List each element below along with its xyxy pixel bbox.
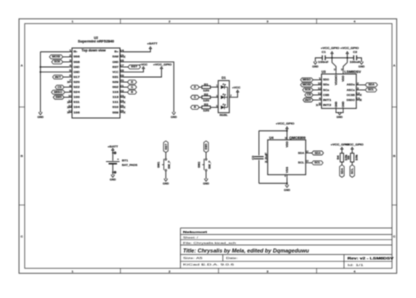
svg-text:011: 011 <box>74 100 80 104</box>
wire <box>313 94 318 96</box>
power +VCC at U2 <box>142 67 144 69</box>
svg-text:BAT_PADS: BAT_PADS <box>122 163 137 167</box>
svg-text:C2: C2 <box>353 50 357 54</box>
ground below battery <box>111 175 114 177</box>
global label SCL at U3 <box>359 89 365 91</box>
capacitor C3 <box>254 156 264 158</box>
global label MOSI <box>49 55 62 59</box>
wire <box>313 84 318 86</box>
power +BATT at U2 <box>149 47 151 49</box>
ground below SW2 <box>204 179 207 181</box>
ic U2 Supermini nRF52840 body <box>72 48 120 118</box>
svg-text:SCK: SCK <box>54 60 61 64</box>
battery BT1 plates <box>106 161 120 163</box>
svg-text:+VCC_GPIO: +VCC_GPIO <box>345 142 363 146</box>
svg-text:MISO: MISO <box>54 90 63 94</box>
wire G to R2 <box>199 96 202 98</box>
U3 pin 4 INT1 <box>318 99 321 101</box>
global label RST above SW1 <box>164 141 169 153</box>
svg-text:1: 1 <box>72 20 74 24</box>
U3 pin 1 SDO <box>318 79 321 81</box>
junction above U4 <box>286 130 288 132</box>
svg-text:Nekumori: Nekumori <box>183 230 207 234</box>
global label SDA at U3 <box>359 84 365 86</box>
svg-text:SDA: SDA <box>340 167 344 174</box>
svg-text:GND: GND <box>334 101 338 107</box>
wire battery to ground <box>112 164 114 175</box>
svg-text:Title: Chrysalis by Mela, edit: Title: Chrysalis by Mela, edited by Dqma… <box>183 248 310 254</box>
svg-text:SCL: SCL <box>298 161 304 165</box>
wire rail to VDDIO pin <box>332 58 336 71</box>
global label R at resistor R1 <box>191 85 200 89</box>
svg-text:ASDx: ASDx <box>347 83 355 87</box>
svg-text:GND: GND <box>110 178 117 182</box>
svg-text:C3: C3 <box>251 155 255 160</box>
svg-text:MOSI: MOSI <box>303 83 311 87</box>
global label CS <box>55 85 64 89</box>
global label G <box>123 86 128 88</box>
battery BT1 top pad <box>114 152 116 154</box>
svg-text:INT: INT <box>305 98 311 102</box>
svg-text:106: 106 <box>74 110 80 114</box>
no-connect pin 111 <box>123 101 125 103</box>
svg-text:SCL: SCL <box>350 168 354 174</box>
svg-text:SCK: SCK <box>305 88 312 92</box>
wire R2 to D1 <box>210 96 218 98</box>
global label MISO at U3 <box>301 78 314 82</box>
svg-text:3: 3 <box>267 20 269 24</box>
wire +VCC_GPIO to U4 VDD <box>286 129 288 140</box>
svg-text:120: 120 <box>203 109 210 113</box>
U3 pin VDD <box>342 71 344 74</box>
svg-text:RGBL: RGBL <box>220 113 228 117</box>
svg-text:INT1: INT1 <box>323 98 332 102</box>
svg-text:022: 022 <box>74 85 80 89</box>
svg-text:GND: GND <box>37 115 44 119</box>
ground right of U2 <box>172 112 175 114</box>
U3 pin ASDx <box>356 84 359 86</box>
svg-text:BT1: BT1 <box>122 158 128 162</box>
wire D1 common anode to +VCC <box>229 92 237 97</box>
svg-text:GND: GND <box>112 60 119 64</box>
no-connect pin RAW <box>123 56 125 58</box>
svg-text:100nF: 100nF <box>318 60 329 64</box>
global label SW0 above SW2 <box>204 141 209 153</box>
svg-text:100nF: 100nF <box>350 60 361 64</box>
wire R4 to label <box>341 162 343 165</box>
svg-text:2: 2 <box>169 20 171 24</box>
svg-text:R3: R3 <box>204 102 209 106</box>
wire SW1 to ground <box>165 171 167 179</box>
svg-text:U4: U4 <box>269 136 273 140</box>
U3 pin DSDO <box>356 99 359 101</box>
no-connect pin 104 <box>67 106 69 108</box>
svg-text:010: 010 <box>112 105 118 109</box>
svg-text:KiCad E.D.A. 9.0.6: KiCad E.D.A. 9.0.6 <box>183 263 235 267</box>
svg-text:SDA: SDA <box>298 151 305 155</box>
U3 pin 13 SCx <box>318 89 321 91</box>
svg-text:GND: GND <box>337 115 344 119</box>
svg-text:Top down view: Top down view <box>82 48 107 52</box>
svg-text:VSS: VSS <box>285 167 289 173</box>
svg-text:GND: GND <box>74 70 81 74</box>
svg-text:SW1: SW1 <box>157 161 161 168</box>
svg-text:VDD: VDD <box>341 76 345 82</box>
no-connect pin 106 <box>67 111 69 113</box>
svg-text:MISO: MISO <box>303 78 312 82</box>
battery BT1 bottom pad <box>114 171 116 173</box>
no-connect pin 011 <box>67 101 69 103</box>
ic U4 QMC6309 body <box>268 140 306 175</box>
svg-text:017: 017 <box>74 75 80 79</box>
global label B at resistor R3 <box>191 105 200 109</box>
RGB LED D1 body <box>218 81 229 113</box>
U4 pin SDA <box>306 152 309 154</box>
U3 pin 9 INT2 <box>318 104 321 106</box>
svg-text:Rev: v2 - LSM6DSV: Rev: v2 - LSM6DSV <box>348 256 395 260</box>
svg-text:R5: R5 <box>347 155 351 160</box>
svg-text:+VCC_GPIO: +VCC_GPIO <box>276 122 294 126</box>
svg-text:VDD: VDD <box>285 141 289 147</box>
wire R5 to label <box>351 162 353 165</box>
resistor R2 <box>202 96 211 99</box>
wire B+ to +BATT <box>123 49 150 52</box>
svg-text:ASCx: ASCx <box>347 88 355 92</box>
wire GND right pin to ground <box>123 62 174 113</box>
svg-text:File: Chrysalis.kicad_sch: File: Chrysalis.kicad_sch <box>183 241 237 245</box>
U3 pin 15 SDx <box>318 84 321 86</box>
wire to C3 rail top <box>259 130 287 132</box>
wire B- to GND bus <box>40 51 69 53</box>
global label SCL at U4 <box>309 162 312 164</box>
wire label to SW1 <box>165 153 167 159</box>
U3 pin OCSB <box>356 94 359 96</box>
svg-text:+VCC: +VCC <box>139 62 147 66</box>
global label CS at U3 <box>305 93 313 97</box>
svg-text:SW0: SW0 <box>56 95 62 99</box>
global label MISO <box>51 90 64 94</box>
wire <box>313 89 318 91</box>
wire U3 grounds join <box>336 112 343 113</box>
svg-text:SCL: SCL <box>368 88 374 92</box>
C3 rail vertical <box>258 131 260 156</box>
svg-text:GND: GND <box>203 182 210 186</box>
svg-text:GND: GND <box>74 65 81 69</box>
svg-text:+BATT: +BATT <box>108 144 119 148</box>
svg-text:CSB: CSB <box>323 93 330 97</box>
power +VCC_GPIO above R5 <box>351 147 353 149</box>
svg-text:CS: CS <box>307 93 311 97</box>
resistor R4 <box>340 153 343 162</box>
svg-text:MOSI: MOSI <box>52 55 60 59</box>
svg-text:CS: CS <box>58 85 62 89</box>
svg-text:008: 008 <box>74 60 80 64</box>
svg-text:RST: RST <box>164 143 168 149</box>
power +VCC at D1 <box>236 90 238 92</box>
no-connect pin 020 <box>67 81 69 83</box>
global label SCL below R5 <box>350 165 355 177</box>
svg-text:R4: R4 <box>336 155 340 160</box>
svg-text:U3: U3 <box>322 70 326 74</box>
svg-text:SDA: SDA <box>315 151 322 155</box>
svg-text:GND: GND <box>171 115 178 119</box>
wire +BATT to battery <box>112 150 114 161</box>
U3 pin GND bottom2 <box>342 108 344 111</box>
C3 rail bottom to ground wire <box>259 182 287 184</box>
svg-text:029: 029 <box>112 80 118 84</box>
wire <box>313 99 318 101</box>
svg-text:+BATT: +BATT <box>147 42 158 46</box>
svg-text:B+: B+ <box>114 50 118 54</box>
global label MOSI at U3 <box>301 83 314 87</box>
wire rail to VDD pin <box>343 58 347 71</box>
ground at C2 <box>360 62 363 64</box>
svg-text:+VCC_GPIO: +VCC_GPIO <box>321 46 339 50</box>
svg-text:VDDIO: VDDIO <box>334 74 338 85</box>
switch SW1 <box>165 159 167 161</box>
global label B <box>123 91 128 93</box>
global label SCK at U3 <box>303 88 313 92</box>
svg-text:OCSB: OCSB <box>347 93 356 97</box>
svg-text:GND: GND <box>163 182 170 186</box>
junction at GND pin5 <box>40 71 42 73</box>
resistor R1 <box>202 86 211 89</box>
junction VDD rail <box>346 57 348 59</box>
svg-text:115: 115 <box>112 90 118 94</box>
svg-text:RAW: RAW <box>112 55 118 59</box>
power +VCC_GPIO at U2 <box>160 67 162 69</box>
svg-text:Date:: Date: <box>226 256 238 260</box>
resistor R3 <box>202 106 211 109</box>
ground below SW1 <box>164 179 167 181</box>
svg-text:4: 4 <box>354 20 356 24</box>
wire R3 to D1 <box>210 106 218 108</box>
no-connect pin 009 <box>123 111 125 113</box>
svg-text:SW_P: SW_P <box>207 161 211 169</box>
svg-text:SDO: SDO <box>323 78 330 82</box>
wire <box>313 79 318 81</box>
svg-text:SDx: SDx <box>323 83 329 87</box>
wire GND pin4 <box>40 66 69 68</box>
svg-text:2.2uF: 2.2uF <box>264 152 268 163</box>
svg-text:GND: GND <box>284 188 291 192</box>
no-connect U3 INT2 <box>316 104 318 106</box>
svg-text:DSDO: DSDO <box>347 98 356 102</box>
svg-text:C1: C1 <box>322 50 326 54</box>
junction at GND pin4 <box>40 66 42 68</box>
svg-text:+VCC: +VCC <box>232 86 240 90</box>
power +VCC_GPIO above U4 <box>286 127 288 129</box>
D1 internal common bus <box>227 87 229 107</box>
svg-text:002: 002 <box>112 85 118 89</box>
capacitor C2 <box>353 55 355 60</box>
ground below U4 <box>285 185 288 187</box>
wire C1 to ground <box>315 58 322 62</box>
ground at C1 <box>314 62 317 64</box>
svg-text:SW2: SW2 <box>197 161 201 168</box>
power +VCC_GPIO above C2 <box>346 54 348 58</box>
resistor R5 <box>351 153 354 162</box>
svg-text:GND: GND <box>341 101 345 107</box>
power +VCC_GPIO above C1 <box>331 54 333 58</box>
global label G at resistor R2 <box>191 95 200 99</box>
wire R to R1 <box>199 86 202 88</box>
U4 pin SCL <box>306 162 309 164</box>
svg-text:2: 2 <box>169 269 171 273</box>
LED element B inside D1 <box>221 105 225 109</box>
wire to R5 <box>351 149 353 153</box>
svg-text:+VCC_GPIO: +VCC_GPIO <box>153 62 172 66</box>
svg-text:SW0: SW0 <box>204 143 208 149</box>
svg-text:R1: R1 <box>204 82 209 86</box>
U3 pin 12 CSB <box>318 94 321 96</box>
LED element G inside D1 <box>221 95 225 99</box>
svg-text:GND: GND <box>358 65 365 69</box>
switch SW2 <box>205 159 207 161</box>
svg-text:111: 111 <box>112 100 118 104</box>
U3 pin VDDIO <box>335 71 337 74</box>
junction below U4 <box>286 182 288 184</box>
wire SW2 to ground <box>205 171 207 179</box>
svg-text:RST: RST <box>131 65 137 69</box>
power +VCC_GPIO above R4 <box>341 147 343 149</box>
global label R <box>123 81 128 83</box>
svg-text:3: 3 <box>267 269 269 273</box>
global label INT <box>53 75 64 79</box>
wire C2 to ground <box>357 58 362 62</box>
svg-text:113: 113 <box>112 95 118 99</box>
LED element R inside D1 <box>221 85 225 89</box>
svg-text:1: 1 <box>72 269 74 273</box>
U2 pin stubs and names <box>69 51 72 53</box>
svg-text:031: 031 <box>112 75 118 79</box>
wire U4 VSS to ground <box>286 178 288 185</box>
svg-text:QMC6309: QMC6309 <box>289 136 305 140</box>
svg-text:020: 020 <box>74 80 80 84</box>
svg-text:Id: 1/1: Id: 1/1 <box>348 263 365 267</box>
global label SDA at U4 <box>309 152 312 154</box>
svg-text:SDA: SDA <box>368 83 375 87</box>
no-connect U3 OCSB <box>360 94 362 96</box>
wire label to SW2 <box>205 153 207 159</box>
svg-text:Size: A5: Size: A5 <box>183 256 203 260</box>
svg-text:006: 006 <box>74 55 80 59</box>
ground below U3 <box>338 113 341 115</box>
GND bus vertical wire <box>39 52 41 113</box>
svg-text:009: 009 <box>112 110 118 114</box>
svg-text:10k: 10k <box>355 154 359 161</box>
svg-text:RST: RST <box>112 65 118 69</box>
no-connect pin 010 <box>123 106 125 108</box>
wire R1 to D1 <box>210 86 218 88</box>
wire B to R3 <box>199 106 202 108</box>
svg-text:Sheet: /: Sheet: / <box>183 236 198 240</box>
svg-text:SCx: SCx <box>323 88 329 92</box>
global label SDA below R4 <box>340 165 345 177</box>
ic U3 LSM6DSV body <box>322 74 357 108</box>
capacitor C1 <box>321 55 323 60</box>
svg-text:LSM6DSV: LSM6DSV <box>344 70 362 74</box>
global label SW0 <box>53 95 64 99</box>
wire VCC pin to +VCC <box>123 69 143 72</box>
svg-text:B-: B- <box>74 50 78 54</box>
svg-text:R2: R2 <box>204 92 209 96</box>
svg-text:INT2: INT2 <box>323 103 332 107</box>
svg-text:SW_P: SW_P <box>167 161 171 169</box>
wire to R4 <box>341 149 343 153</box>
svg-text:4: 4 <box>354 269 356 273</box>
ground GND left bus <box>39 113 42 115</box>
no-connect pin 113 <box>123 96 125 98</box>
global label SCK <box>52 60 63 64</box>
svg-text:D1: D1 <box>222 76 226 80</box>
svg-text:GND: GND <box>312 65 319 69</box>
svg-text:INT: INT <box>55 75 61 79</box>
junction VDDIO rail <box>331 57 333 59</box>
no-connect U3 DSDO <box>360 99 362 101</box>
svg-text:SCL: SCL <box>314 161 320 165</box>
U3 pin GND bottom1 <box>335 108 337 111</box>
power +BATT at battery <box>112 148 114 150</box>
global label INT at U3 <box>303 98 313 102</box>
svg-text:VCC: VCC <box>112 70 119 74</box>
wire cap rail above U3 <box>325 57 354 59</box>
wire GND pin5 <box>40 71 69 73</box>
wire 031 pin to +VCC_GPIO <box>123 69 162 77</box>
global label RST at U2 <box>123 66 128 68</box>
svg-text:104: 104 <box>74 105 80 109</box>
U3 pin ASCx <box>356 89 359 91</box>
svg-text:Supermini nRF52840: Supermini nRF52840 <box>78 39 114 43</box>
svg-text:100: 100 <box>74 95 80 99</box>
svg-text:024: 024 <box>74 90 80 94</box>
svg-text:+: + <box>117 157 119 161</box>
